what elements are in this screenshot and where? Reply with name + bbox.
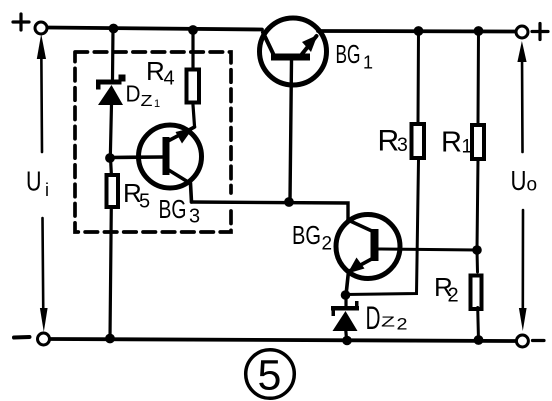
- svg-text:BG: BG: [292, 220, 321, 250]
- svg-text:2: 2: [397, 316, 408, 334]
- svg-text:o: o: [527, 175, 538, 196]
- svg-text:U: U: [26, 166, 42, 197]
- svg-text:2: 2: [322, 234, 333, 255]
- svg-text:U: U: [511, 165, 527, 196]
- svg-text:1: 1: [462, 137, 473, 158]
- svg-text:5: 5: [139, 191, 150, 213]
- svg-text:BG: BG: [159, 194, 187, 224]
- svg-text:R: R: [146, 56, 165, 86]
- svg-text:D: D: [366, 300, 381, 336]
- svg-text:R: R: [378, 125, 400, 158]
- svg-text:4: 4: [164, 68, 175, 90]
- svg-text:i: i: [45, 180, 49, 200]
- svg-text:D: D: [126, 81, 141, 107]
- svg-text:1: 1: [154, 98, 160, 110]
- svg-text:5: 5: [258, 352, 282, 400]
- svg-text:2: 2: [448, 285, 459, 307]
- svg-text:3: 3: [189, 206, 200, 228]
- svg-text:BG: BG: [336, 39, 361, 69]
- svg-text:Z: Z: [141, 93, 153, 110]
- svg-text:R: R: [441, 127, 462, 159]
- svg-text:3: 3: [397, 134, 408, 156]
- svg-text:1: 1: [363, 53, 373, 73]
- svg-text:Z: Z: [381, 314, 395, 331]
